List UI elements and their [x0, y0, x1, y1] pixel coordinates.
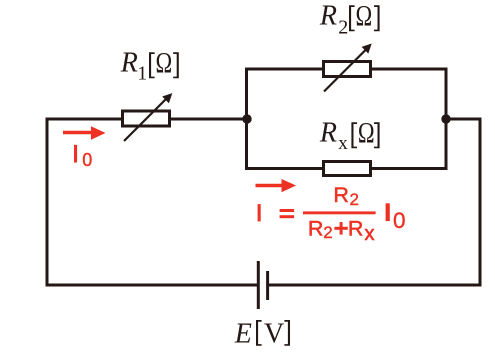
- node A junction dot: [242, 114, 251, 123]
- formula plus sign: [334, 227, 347, 230]
- wire left outer vertical: [46, 118, 49, 287]
- svg-text:Ω: Ω: [355, 0, 372, 32]
- svg-text:0: 0: [82, 150, 92, 170]
- svg-text:2: 2: [323, 223, 332, 242]
- current arrow I0: [63, 126, 106, 140]
- current arrow I (branch current): [256, 179, 297, 192]
- formula equals sign: [280, 209, 295, 212]
- svg-text:R: R: [308, 217, 324, 241]
- svg-text:0: 0: [393, 208, 406, 233]
- svg-text:R: R: [319, 118, 337, 149]
- svg-text:2: 2: [338, 17, 348, 39]
- battery E: [258, 261, 267, 309]
- wire main horizontal through R1: [46, 118, 249, 121]
- label E value: [234, 318, 290, 349]
- wire node B to right outer: [446, 118, 482, 121]
- label R1 value: [120, 45, 179, 84]
- svg-text:E: E: [234, 318, 252, 349]
- svg-text:Ω: Ω: [155, 45, 172, 79]
- resistor R2 (variable): [324, 44, 372, 92]
- svg-text:2: 2: [350, 190, 359, 209]
- svg-text:x: x: [365, 223, 375, 245]
- svg-text:V: V: [264, 318, 284, 349]
- wire bottom left (to battery): [46, 284, 258, 287]
- wire parallel loop left vertical: [245, 68, 248, 171]
- svg-text:R: R: [319, 1, 337, 32]
- wire parallel loop bottom branch: [245, 167, 448, 170]
- svg-text:R: R: [348, 217, 364, 241]
- formula I = R2/(R2+Rx) I0: [258, 183, 406, 245]
- wire bottom right (from battery): [269, 284, 482, 287]
- svg-text:R: R: [333, 183, 349, 207]
- svg-text:Ω: Ω: [358, 115, 375, 149]
- svg-text:1: 1: [137, 63, 147, 85]
- node B junction dot: [441, 114, 450, 123]
- label I0: [74, 145, 92, 170]
- label Rx value: [319, 115, 380, 154]
- formula I term: [258, 204, 261, 221]
- formula fraction bar: [303, 211, 376, 214]
- svg-text:R: R: [120, 48, 138, 79]
- label R2 value: [319, 0, 380, 39]
- resistor R1 (variable): [123, 93, 173, 141]
- formula I0 term: [386, 203, 390, 221]
- wire right outer vertical: [479, 118, 482, 287]
- wire parallel loop top branch: [245, 68, 448, 71]
- svg-text:x: x: [338, 133, 348, 154]
- wire parallel loop right vertical: [445, 68, 448, 171]
- resistor Rx: [324, 162, 371, 176]
